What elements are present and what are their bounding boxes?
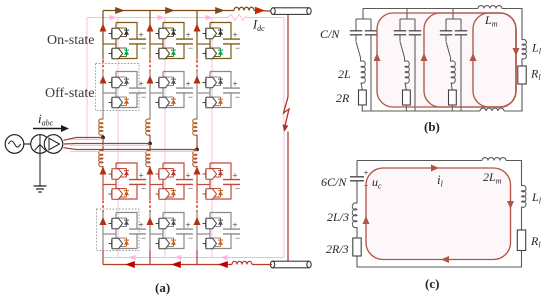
branch 1 (circuit b): capacitor C/N pair — [356, 9, 371, 31]
wire: phase c line — [64, 148, 198, 150]
wire: pink circulating current path (top run) — [87, 17, 284, 19]
wire: phase node to lower arm inductor b — [149, 144, 151, 152]
wire: lower column SM3 segment phase b — [149, 166, 151, 200]
svg-text:+: + — [186, 30, 191, 40]
wire: source to transformer — [24, 143, 31, 145]
submodule SM4 phase a (lower arm, off-state) — [103, 213, 146, 249]
circuit (b): outer top wire — [363, 8, 478, 10]
resistor 2R/3 (circuit c) — [353, 238, 361, 256]
pink arrows on top run — [110, 15, 213, 20]
wire: arm inductor to phase node c — [196, 135, 198, 150]
wire: branch 2 right capacitor leg — [414, 35, 416, 111]
ground — [34, 153, 47, 192]
svg-text:+: + — [139, 171, 144, 181]
wire: pink right vertical — [283, 18, 285, 258]
arrow: bottom bus arrow 2 — [171, 261, 181, 268]
submodule SM1 phase b (upper arm, on-state) — [150, 23, 193, 59]
svg-text:−: − — [141, 233, 146, 243]
resistor 2R (circuit b branch 2) — [405, 83, 406, 90]
wire: pink path through phase-c submodules — [211, 18, 213, 258]
transformer secondary (delta) — [44, 135, 63, 154]
circuit (b): circulating loop 1 — [377, 13, 516, 107]
svg-text:−: − — [188, 92, 193, 102]
circuit (c): circulating loop — [366, 168, 511, 260]
svg-text:2L/3: 2L/3 — [327, 210, 349, 224]
arrow: upper arm current arrow phase b — [147, 24, 154, 32]
arrow: bottom bus arrow 3 — [218, 261, 228, 268]
wire: (c) right lower + bottom — [357, 251, 522, 268]
arrow: current arrow at SM4 phase c — [194, 217, 201, 225]
wire: dashed link SM3-SM4 phase b — [149, 201, 151, 213]
inductor 2L (circuit b branch 2) — [404, 58, 406, 62]
wire: phase-c SM1 left edge — [196, 44, 198, 60]
wire: pink path through phase-a submodules — [117, 18, 119, 258]
wire: phase-c upper column (bus to SM1) — [196, 11, 198, 45]
svg-text:−: − — [141, 43, 146, 53]
arrow: current arrow at SM4 phase b — [147, 217, 154, 225]
arrow: current arrow at SM4 phase a — [100, 217, 107, 225]
arrow: current arrow at SM2 phase c — [194, 76, 201, 84]
wire: bus to bottom cable — [252, 264, 272, 266]
wire: dashed link SM1-SM2 phase b — [149, 60, 151, 71]
svg-text:(b): (b) — [424, 119, 440, 134]
wire: phase-a column SM2 segment — [102, 71, 104, 120]
node: phase c connection — [195, 148, 199, 152]
DC cable (positive pole) — [271, 8, 311, 15]
svg-text:+: + — [233, 30, 238, 40]
wire: pink parallel of phase lines — [70, 140, 197, 152]
svg-text:+: + — [233, 79, 238, 89]
wire: phase-c column SM2 segment — [196, 71, 198, 120]
arrow: loop top (c) — [431, 165, 439, 172]
wire: phase b line — [64, 143, 150, 146]
circuit (b): circulating loop 3 — [473, 13, 516, 107]
arrow: upper arm current arrow phase c — [194, 24, 201, 32]
resistor 2R (circuit b branch 1) — [361, 83, 362, 90]
pink arrows on bottom run — [129, 255, 228, 260]
wire: phase node to lower arm inductor a — [102, 138, 104, 152]
wire: SM4 output to bottom bus phase a — [102, 250, 104, 265]
inductor Lm (top, circuit b) — [478, 6, 502, 9]
svg-text:On-state: On-state — [47, 33, 94, 48]
branch 2 (circuit b): capacitor C/N pair — [400, 9, 415, 31]
branch 3 (circuit b): capacitor C/N pair — [446, 9, 461, 31]
wire: pink zigzag at dc inductor — [228, 15, 246, 21]
wire: phase-b upper column (bus to SM1) — [149, 11, 151, 45]
wire: phase node to lower arm inductor c — [196, 150, 198, 152]
svg-text:+: + — [186, 79, 191, 89]
inductor 2L (circuit b branch 3) — [450, 58, 452, 62]
svg-text:2R: 2R — [336, 91, 350, 105]
arrow: lower arm current arrow phase b — [147, 167, 154, 175]
inductor: DC smoothing inductor (bottom) — [232, 261, 252, 264]
inductor: lower arm inductor phase c — [193, 150, 197, 166]
wire: SM4 output to bottom bus phase b — [149, 250, 151, 265]
circuit (b): circulating loop 2 — [424, 13, 516, 107]
svg-text:−: − — [235, 92, 240, 102]
wire: DC link right vertical — [287, 14, 289, 97]
circuit (c): pink loop fill — [366, 168, 511, 260]
wire: phase-b SM1 left edge — [149, 44, 151, 60]
resistor 2R (circuit b branch 3) — [451, 83, 452, 90]
submodule SM4 phase c (lower arm, off-state) — [197, 213, 240, 249]
svg-text:+: + — [233, 171, 238, 181]
arrow: loop right (c) — [507, 201, 514, 209]
wire: phase-b column SM2 segment — [149, 71, 151, 120]
wire: phase a line — [64, 138, 104, 141]
node: phase a connection — [101, 136, 105, 140]
submodule SM3 phase c (lower arm, on-state) — [197, 163, 240, 199]
callout box: off-state submodule (upper) — [96, 64, 140, 111]
submodule SM3 phase b (lower arm, on-state) — [150, 163, 193, 199]
svg-text:−: − — [235, 233, 240, 243]
svg-text:2R/3: 2R/3 — [326, 242, 349, 256]
wire: lower column SM3 segment phase c — [196, 166, 198, 200]
arrow: loop bottom (c) — [441, 256, 449, 263]
svg-text:+: + — [186, 220, 191, 230]
svg-text:2L: 2L — [338, 67, 351, 81]
wire: (c) top right corner — [506, 161, 522, 187]
wire: pink left vertical — [86, 18, 88, 141]
transformer primary (wye) — [31, 135, 50, 154]
wire: phase-a upper column (bus to SM1) — [102, 11, 104, 45]
svg-text:(c): (c) — [425, 276, 439, 291]
switch (circuit b branch 2) — [400, 35, 405, 58]
wire: pink bottom run — [103, 257, 284, 259]
arrow: lower arm current arrow phase c — [194, 167, 201, 175]
wire: arm inductor to phase node b — [149, 135, 151, 144]
arrow: current arrow at SM2 phase b — [147, 76, 154, 84]
svg-text:Off-state: Off-state — [45, 86, 95, 101]
callout box: off-state submodule (lower) — [97, 209, 140, 251]
submodule SM3 phase a (lower arm, on-state) — [103, 163, 146, 199]
svg-text:+: + — [233, 220, 238, 230]
arrow: current arrow at SM2 phase a — [100, 76, 107, 84]
arrow: bottom bus arrow 1 — [125, 261, 135, 268]
svg-text:−: − — [188, 43, 193, 53]
submodule SM2 phase b (upper arm, off-state) — [150, 72, 193, 108]
arrow: upper arm current arrow phase a — [100, 24, 107, 32]
svg-text:+: + — [186, 171, 191, 181]
svg-text:(a): (a) — [155, 280, 170, 295]
arrow: top bus current arrow 1 — [115, 7, 125, 14]
wire: dashed link SM1-SM2 phase a — [102, 60, 104, 71]
svg-text:+: + — [139, 220, 144, 230]
circuit (b): pink loop fill — [377, 13, 516, 107]
node: phase b connection — [148, 142, 152, 146]
arrow: top bus current arrow 3 — [215, 7, 225, 14]
inductor: DC smoothing inductor (top) — [234, 7, 254, 10]
svg-text:C/N: C/N — [320, 27, 340, 41]
svg-text:−: − — [141, 184, 146, 194]
wire: arm inductor to phase node a — [102, 135, 104, 138]
arrow: loop return (b) — [513, 48, 520, 56]
wire: dashed link SM3-SM4 phase a — [102, 201, 104, 213]
svg-text:−: − — [235, 43, 240, 53]
wire: lower column SM4 segment phase a — [102, 212, 104, 250]
wire: SM4 output to bottom bus phase c — [196, 250, 198, 265]
submodule SM4 phase b (lower arm, off-state) — [150, 213, 193, 249]
inductor Ll (circuit b) — [522, 39, 526, 59]
wire: pink path through phase-b submodules — [164, 18, 166, 258]
submodule SM1 phase a (upper arm, on-state) — [103, 23, 146, 59]
wire: (c) left upper — [356, 181, 358, 204]
submodule SM2 phase c (upper arm, off-state) — [197, 72, 240, 108]
wire: phase-a SM1 left edge — [102, 44, 104, 60]
wire: dashed link SM1-SM2 phase c — [196, 60, 198, 71]
wire: lower column SM3 segment phase a — [102, 166, 104, 200]
svg-text:−: − — [235, 184, 240, 194]
inductor 2L (circuit b branch 1) — [360, 58, 362, 62]
switch (circuit b branch 3) — [446, 35, 451, 58]
inductor 2L/3 (circuit c) — [352, 203, 357, 228]
wire: bus to top cable — [254, 10, 273, 13]
arrow: loop left (c) — [363, 216, 370, 224]
arrow: iabc direction — [33, 125, 69, 132]
arrow: Idc red arrow — [255, 7, 265, 14]
wire: (b) bottom wire — [362, 110, 481, 112]
arrow: top bus current arrow 2 — [165, 7, 175, 14]
inductor (bottom, circuit b) — [480, 108, 504, 111]
svg-text:−: − — [188, 184, 193, 194]
arrow: lower arm current arrow phase a — [100, 167, 107, 175]
wire: (b) right lower + bottom — [504, 84, 522, 111]
fault lightning bolt — [284, 97, 290, 126]
wire: top DC bus — [103, 10, 234, 12]
svg-text:6C/N: 6C/N — [321, 175, 347, 189]
wire: (b) top right corner — [502, 9, 522, 41]
inductor: lower arm inductor phase a — [99, 150, 103, 166]
svg-text:+: + — [139, 79, 144, 89]
AC source — [5, 135, 24, 154]
wire: branch 1 right capacitor leg — [370, 35, 372, 111]
wire: lower column SM4 segment phase c — [196, 212, 198, 250]
svg-text:−: − — [141, 92, 146, 102]
inductor 2Lm (circuit c) — [482, 158, 506, 161]
wire: branch 3 right capacitor leg — [460, 35, 462, 111]
inductor: lower arm inductor phase b — [146, 150, 150, 166]
circuit (c): outer top wire — [357, 160, 482, 162]
wire: DC link right vertical lower — [287, 132, 289, 262]
inductor: upper arm inductor phase b — [146, 119, 150, 135]
svg-text:+: + — [139, 30, 144, 40]
wire: lower column SM4 segment phase b — [149, 212, 151, 250]
resistor Rl (circuit b) — [518, 66, 526, 84]
wire: dashed link SM3-SM4 phase c — [196, 201, 198, 213]
resistor Rl (circuit c) — [517, 230, 525, 251]
wire: bottom DC bus — [103, 264, 232, 266]
submodule SM2 phase a (upper arm, off-state) — [103, 72, 146, 108]
wire: (c) left mid — [356, 227, 358, 238]
switch (circuit b branch 1) — [356, 35, 361, 58]
wire: (b) right mid — [521, 58, 523, 66]
DC cable (negative pole) — [270, 261, 311, 268]
capacitor 6C/N (circuit c) — [350, 176, 364, 178]
inductor Ll (circuit c) — [522, 185, 526, 207]
svg-text:−: − — [188, 233, 193, 243]
inductor: upper arm inductor phase c — [193, 119, 197, 135]
wire: (c) right mid — [521, 207, 523, 230]
inductor: upper arm inductor phase a — [99, 119, 103, 135]
submodule SM1 phase c (upper arm, on-state) — [197, 23, 240, 59]
